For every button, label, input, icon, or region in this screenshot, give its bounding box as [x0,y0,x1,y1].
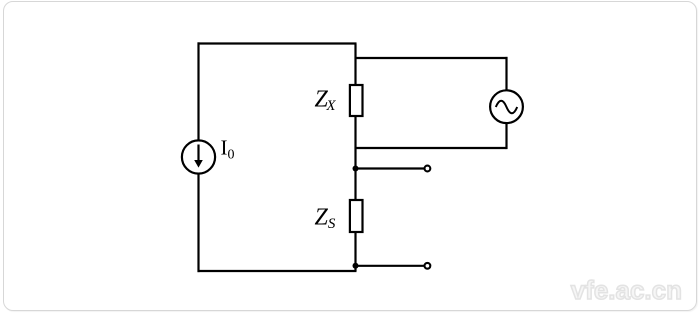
impedance Zs (rectangle) [350,200,363,232]
wire to lower terminal [356,265,425,267]
svg-text:ZX: ZX [315,87,337,115]
wire left vertical upper [197,42,199,139]
terminal upper (open circle) [425,166,431,172]
junction node lower [353,263,359,269]
svg-text:I0: I0 [221,136,235,163]
wire top horizontal [198,42,357,44]
terminal lower (open circle) [425,263,431,269]
AC source [490,90,523,123]
wire middle vertical (Zx/Zs branch) [354,44,356,272]
current source I0 [182,140,215,173]
impedance Zx (rectangle) [350,85,363,116]
junction node upper [353,166,359,172]
wire AC source return [356,147,507,149]
svg-text:ZS: ZS [315,204,336,232]
wire left vertical lower [197,174,199,272]
wire to AC source top [356,57,508,59]
watermark vfe.ac.cn [571,275,682,306]
wire to upper terminal [356,167,425,169]
wire bottom horizontal [198,270,357,272]
wire AC source vertical lower [505,123,507,149]
wire AC source vertical upper [505,57,507,91]
